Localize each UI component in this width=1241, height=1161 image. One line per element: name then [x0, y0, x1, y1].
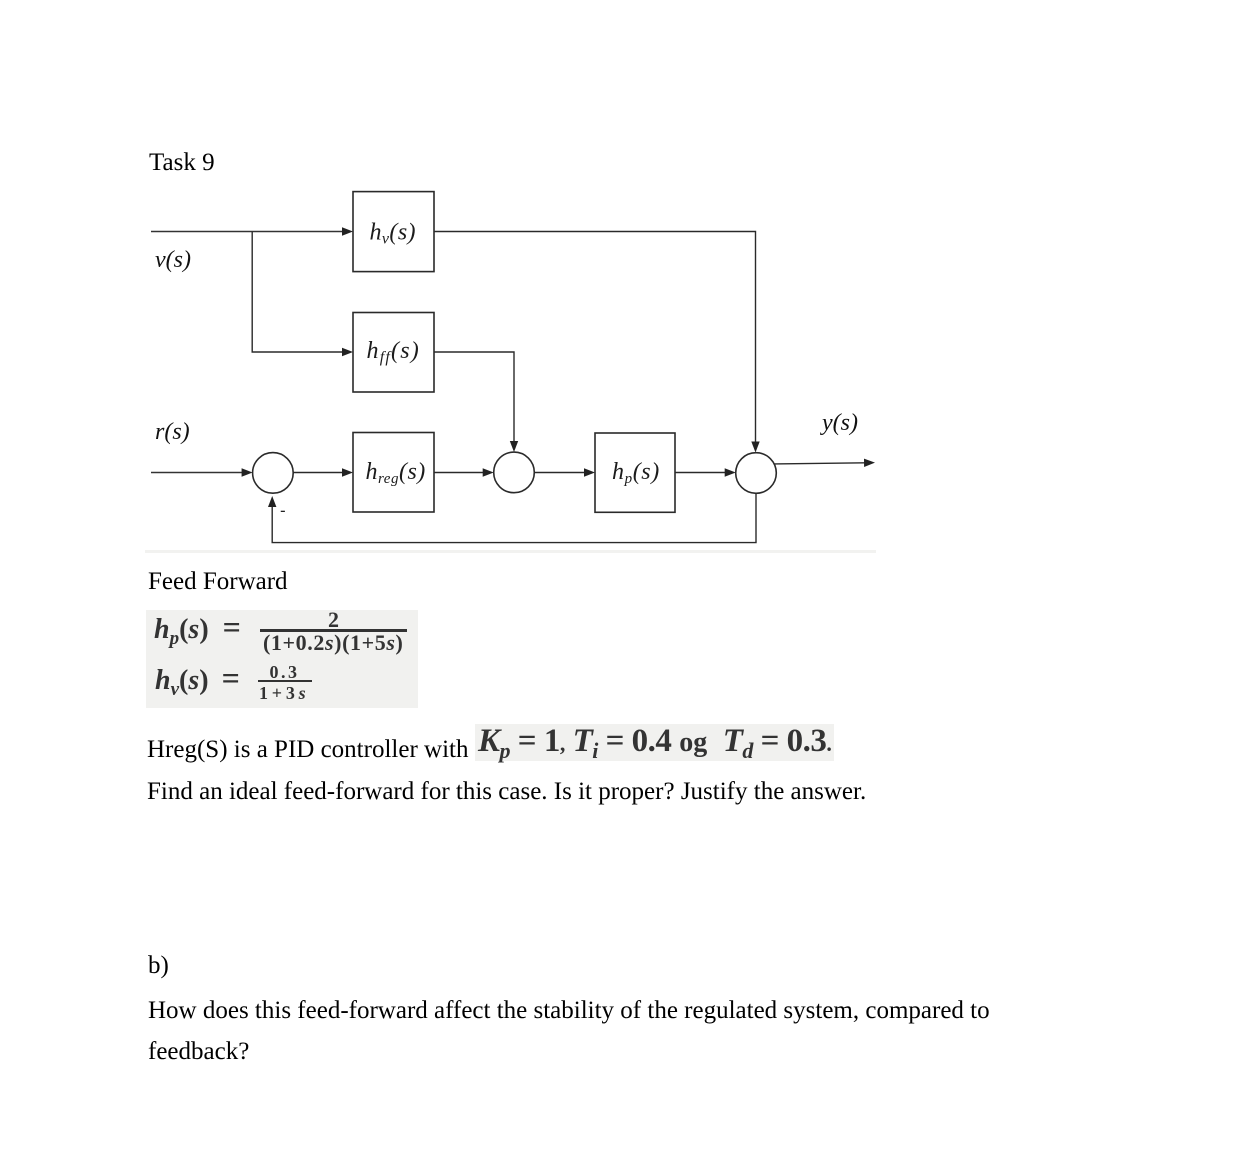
arrow output	[864, 459, 875, 467]
arrow into hp	[584, 468, 595, 476]
svg-text:hp(s): hp(s)	[612, 459, 660, 487]
wire feedback	[272, 493, 756, 542]
block hv(s)	[353, 192, 434, 272]
formula hp(s) = 2/((1+0.2s)(1+5s))	[154, 613, 241, 653]
wire sum2 to hp	[534, 472, 585, 474]
Kp = 1, Ti = 0.4 og Td = 0.3.	[478, 725, 831, 767]
arrow into sum2 top	[510, 441, 518, 452]
arrow into hreg	[342, 468, 353, 476]
How does paragraph line 2	[148, 1039, 249, 1064]
wire r(s) input	[151, 472, 243, 474]
svg-text:hff(s): hff(s)	[367, 338, 420, 366]
faint bottom edge of diagram image	[145, 550, 876, 553]
svg-text:hv(s): hv(s)	[370, 220, 416, 248]
wire hp to sum3	[675, 472, 726, 474]
svg-text:v(s): v(s)	[155, 247, 191, 273]
wire branch to hff	[252, 232, 343, 353]
How does paragraph line 1	[148, 998, 990, 1023]
wire hreg to sum2	[434, 472, 484, 474]
summing junction sum3	[736, 453, 777, 494]
block hff(s)	[353, 313, 434, 393]
svg-text:y(s): y(s)	[820, 410, 858, 436]
Task 9 heading	[149, 150, 215, 175]
summing junction sum2	[494, 452, 535, 493]
block hreg(s)	[353, 433, 434, 513]
wire output y(s)	[775, 463, 866, 464]
block hp(s)	[595, 433, 675, 512]
arrow into sum3 top	[751, 442, 759, 453]
svg-text:-: -	[280, 501, 286, 520]
Hreg paragraph	[147, 737, 468, 762]
Kp formula background	[475, 724, 834, 761]
wire hff out to sum2	[434, 352, 514, 443]
svg-text:hreg(s): hreg(s)	[366, 459, 426, 487]
arrow into sum2	[483, 468, 494, 476]
block diagram	[140, 180, 900, 560]
b)	[148, 953, 169, 978]
arrow feedback into sum1 bottom	[268, 496, 276, 507]
Feed Forward heading	[148, 569, 288, 594]
wire sum1 to hreg	[293, 472, 343, 474]
arrow into sum3	[725, 468, 736, 476]
Find paragraph	[147, 779, 866, 804]
arrow into hv	[342, 227, 353, 235]
formula image 1 background	[146, 610, 418, 708]
arrow into hff	[342, 348, 353, 356]
wire v(s) input	[151, 231, 344, 233]
wire hv out to sum3	[434, 232, 756, 444]
formula hv(s) = 0.3/(1+3s)	[155, 664, 240, 704]
summing junction sum1	[253, 453, 294, 494]
arrow into sum1	[242, 468, 253, 476]
svg-text:r(s): r(s)	[155, 419, 190, 445]
